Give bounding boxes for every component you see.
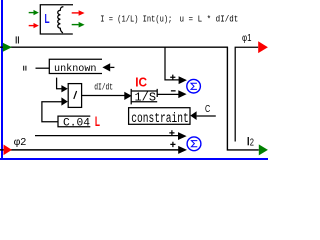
constraint block [129,108,190,125]
label i2 [248,137,255,149]
input port arrow phi2 (red) [4,145,12,156]
svg-text:2: 2 [250,138,254,149]
wire stub right of unknown [110,66,114,68]
diagram frame bottom border [0,158,268,160]
plus sign sum1 [170,75,175,80]
plus sign sum2 top [169,130,174,135]
wire drop from u to division top input [57,78,62,89]
wire i1 main horizontal [0,46,228,48]
svg-text:φ1: φ1 [242,33,252,44]
wire division output to 1/S [82,95,125,97]
arrowhead into 1/S [124,92,131,100]
arrowhead sum2 bottom input [178,146,187,154]
diagram frame left border [1,0,3,160]
arrowhead into constraint right side [190,111,196,120]
svg-text:dI/dt: dI/dt [94,81,113,92]
input port arrow i1 (green) [3,43,12,52]
plus sign sum2 bottom [170,142,175,147]
inductor block icon box [40,5,73,34]
summation circle sum2 [187,137,201,151]
svg-text:I = (1/L) Int(u);: I = (1/L) Int(u); [100,14,172,24]
svg-text:1/S: 1/S [135,92,157,105]
summation circle sum1 [187,79,201,93]
inductor coil symbol [58,7,64,33]
svg-text:IC: IC [135,75,147,90]
integrator block 1/S [131,89,157,105]
label u [23,66,26,71]
svg-text:constraint: constraint [131,112,189,127]
wire u label to unknown block [36,67,50,69]
wire stub C to constraint [197,115,216,117]
wire V2 vertical phi1 [235,47,258,141]
wire 1/S output to sum1 minus input [157,93,179,95]
icon port arrow green right-bottom [72,22,85,28]
icon port arrow red left-bottom [29,23,39,28]
label i1 [16,36,19,43]
arrowhead sum2 top input [178,132,187,140]
minus sign sum1 [171,90,176,91]
wire C.04 to division bottom input [42,102,62,122]
arrowhead division bottom input [61,97,67,105]
svg-text:unknown: unknown [54,63,97,75]
icon port arrow red right-top [72,10,85,16]
svg-text:φ2: φ2 [14,137,27,148]
arrowhead division top input [61,85,67,92]
icon port arrow green left-top [29,10,39,15]
arrowhead into unknown right side [102,63,110,71]
svg-text:L: L [95,114,100,129]
arrowhead into sum1 plus input [179,76,187,84]
wire phi2 B2 into sum2 bottom input [0,149,179,151]
wire junction drop to sum1 [165,47,179,80]
svg-text:C.04: C.04 [63,117,90,129]
output port arrow phi1 (red) [258,41,268,53]
wire V1 vertical i1 to i2 [227,47,258,150]
unknown block [49,59,102,73]
wire B1 into sum2 top input [35,135,178,137]
svg-text:L: L [45,12,50,26]
division block [68,84,81,108]
gain block C.04 [58,116,90,127]
output port arrow i2 (green) [259,144,268,155]
arrowhead into sum1 minus input [178,90,186,98]
svg-text:C: C [205,104,210,115]
svg-text:u = L * dI/dt: u = L * dI/dt [180,14,239,24]
